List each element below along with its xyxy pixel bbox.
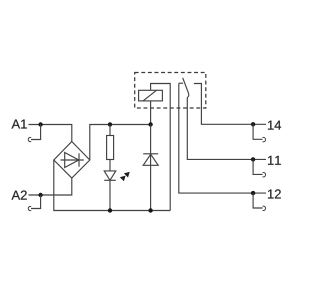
label 12 [268,189,281,198]
contact NC fixed leg to terminal 12 [179,83,266,193]
terminal clamp A2 [28,195,40,211]
label A2 [12,191,27,200]
LED light arrows [120,172,130,182]
label 11 [268,156,281,165]
wire bridge right vertex up to plus rail [90,125,151,161]
node LED bottom junction [108,208,112,212]
terminal clamp 11 [253,159,266,177]
node terminal 14 junction [251,122,255,126]
bridge rectifier diamond [54,142,90,179]
suppressor diode V1 [143,125,158,211]
node A2 junction [38,193,42,197]
terminal clamp 14 [253,124,266,142]
node terminal 11 junction [251,157,255,161]
wire coil bottom pin to A1 rail [150,101,152,125]
node terminal 12 junction [251,191,255,195]
label A1 [12,120,27,129]
node diode bottom junction [148,208,152,212]
LED indicator [104,160,116,211]
relay outline dashed box [135,73,206,109]
wire bridge left vertex down to minus rail [54,160,170,211]
relay coil K1 [139,90,163,101]
wire A1 to bridge top [29,125,72,142]
terminal clamp A1 [28,125,40,142]
terminal clamp 12 [253,193,266,210]
wire A2 to bridge bottom [29,178,72,195]
contact common pole to terminal 11 [187,97,266,159]
node coil/diode top junction [148,122,152,126]
resistor R1 [107,125,114,160]
node A1 junction [38,122,42,126]
contact NO fixed leg to terminal 14 [194,84,266,125]
bridge diode symbol [61,153,84,168]
node resistor top junction [108,122,112,126]
contact blade [183,78,189,98]
wire coil top pin jog to bottom rail [151,84,171,211]
label 14 [268,121,281,130]
